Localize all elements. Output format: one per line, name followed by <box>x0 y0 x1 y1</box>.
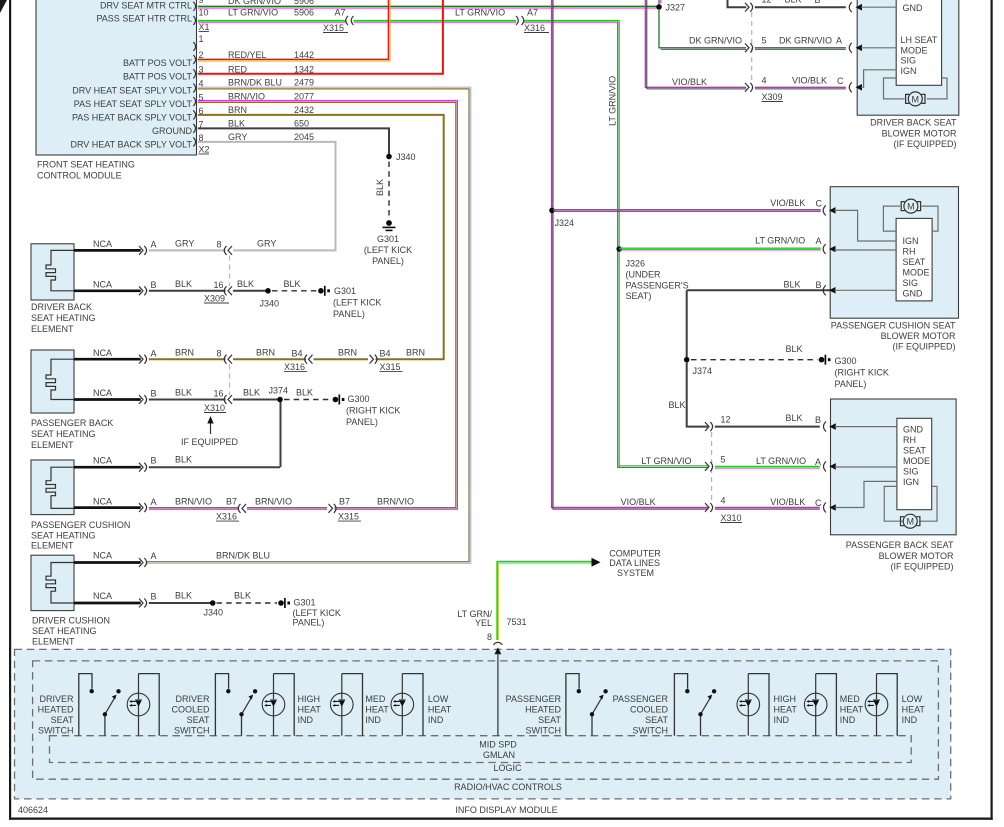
svg-text:J327: J327 <box>666 3 686 13</box>
motor connector M3-A <box>824 461 827 471</box>
svg-text:5906: 5906 <box>294 8 314 18</box>
svg-text:7531: 7531 <box>507 617 527 627</box>
svg-text:NCA: NCA <box>93 388 112 398</box>
svg-text:A: A <box>836 36 842 46</box>
svg-text:X309: X309 <box>762 92 783 102</box>
svg-text:A7: A7 <box>527 8 538 18</box>
page border left <box>9 0 11 820</box>
svg-text:BATT POS VOLT: BATT POS VOLT <box>123 58 193 68</box>
svg-text:VIO/BLK: VIO/BLK <box>770 198 805 208</box>
logic box <box>50 736 912 763</box>
switch S2 driver cooled <box>215 674 257 736</box>
svg-text:ELEMENT: ELEMENT <box>32 637 75 647</box>
svg-text:2479: 2479 <box>294 78 314 88</box>
radio/hvac controls box <box>33 661 939 779</box>
svg-text:SIG: SIG <box>903 467 919 477</box>
svg-text:PASS SEAT HTR CTRL: PASS SEAT HTR CTRL <box>96 14 192 24</box>
page border bottom <box>9 818 993 820</box>
wire pin7 BLK <box>198 128 389 154</box>
connector E3-A <box>139 503 147 512</box>
LED indicator D4 <box>391 674 423 736</box>
svg-text:FRONT SEAT HEATING: FRONT SEAT HEATING <box>37 160 135 170</box>
connector E4-A <box>139 558 147 567</box>
svg-text:BLK: BLK <box>175 455 192 465</box>
svg-text:(RIGHT KICK: (RIGHT KICK <box>835 368 889 378</box>
svg-text:LH SEAT: LH SEAT <box>901 35 938 45</box>
connector E3-B <box>139 463 147 472</box>
node J340 (element4 B) <box>210 600 216 606</box>
svg-text:GND: GND <box>903 289 924 299</box>
heating element E4 DRIVER CUSHION box <box>31 555 74 610</box>
connector E2-B <box>139 395 147 404</box>
svg-text:B7: B7 <box>226 497 237 507</box>
svg-text:BLK: BLK <box>783 280 800 290</box>
svg-text:PASSENGER CUSHION SEAT: PASSENGER CUSHION SEAT <box>831 320 956 330</box>
svg-text:SEAT HEATING: SEAT HEATING <box>31 531 96 541</box>
svg-text:PASSENGER BACK SEAT: PASSENGER BACK SEAT <box>846 540 954 550</box>
svg-text:DK GRN/VIO: DK GRN/VIO <box>779 36 832 46</box>
svg-text:BRN: BRN <box>175 348 194 358</box>
connector X310 pin8 <box>224 355 232 364</box>
svg-text:406624: 406624 <box>18 805 48 815</box>
row C pin4 VIO/BLK <box>745 83 753 92</box>
svg-text:PAS HEAT BACK SPLY VOLT: PAS HEAT BACK SPLY VOLT <box>72 113 193 123</box>
svg-text:C: C <box>815 498 822 508</box>
node J374 (right) <box>684 357 690 363</box>
row C pin4 VIO/BLK <box>705 503 713 512</box>
svg-text:RH: RH <box>903 435 916 445</box>
high heat ind label (right) <box>774 694 798 725</box>
svg-text:BLK: BLK <box>296 388 313 398</box>
wire BLK row B stub from top <box>728 0 747 7</box>
svg-text:ELEMENT: ELEMENT <box>31 440 74 450</box>
wire E4 pigtail A (top) <box>74 561 141 564</box>
wire VIO/BLK vertical (off-page) to X309 row C <box>645 0 746 89</box>
svg-text:BLK: BLK <box>228 119 245 129</box>
svg-text:BLK: BLK <box>786 413 803 423</box>
node J374 (element2 B) <box>277 397 283 403</box>
connector E4-B <box>139 599 147 608</box>
med heat ind label (right) <box>840 694 864 725</box>
svg-text:X315: X315 <box>380 362 401 372</box>
wire pin10 LT GRN/VIO to X315 <box>198 21 347 23</box>
svg-text:MODE: MODE <box>903 268 930 278</box>
svg-text:BATT POS VOLT: BATT POS VOLT <box>123 72 193 82</box>
wire pin3 RED <box>198 0 443 74</box>
svg-text:BLK: BLK <box>786 344 803 354</box>
svg-text:BRN/DK BLU: BRN/DK BLU <box>216 551 270 561</box>
LED indicator D5 <box>737 674 769 736</box>
svg-text:(IF EQUIPPED): (IF EQUIPPED) <box>893 139 956 149</box>
svg-text:SEAT): SEAT) <box>626 291 652 301</box>
svg-text:PANEL): PANEL) <box>346 417 378 427</box>
wire pin6 BRN <box>198 115 444 359</box>
wire DK GRN/VIO from J327 down to blower row A <box>659 9 746 49</box>
svg-text:MODE: MODE <box>901 45 928 55</box>
heater coil symbol E4 <box>46 563 74 604</box>
svg-text:X316: X316 <box>524 23 545 33</box>
M3 inner block <box>897 418 932 509</box>
svg-text:J324: J324 <box>555 218 575 228</box>
svg-text:4: 4 <box>721 496 726 506</box>
wire E3 pigtail A (bottom) <box>74 506 141 509</box>
svg-text:HEAT: HEAT <box>428 705 452 715</box>
row B pin12 BLK <box>705 422 713 431</box>
svg-text:PASSENGER BACK: PASSENGER BACK <box>31 418 113 428</box>
wire E1 pigtail B <box>74 289 141 292</box>
LED indicator D6 <box>804 674 836 736</box>
svg-text:4: 4 <box>762 76 767 86</box>
svg-text:J374: J374 <box>269 386 289 396</box>
svg-text:BRN: BRN <box>338 348 357 358</box>
motor connector M3-C <box>824 503 827 513</box>
svg-text:SIG: SIG <box>901 56 917 66</box>
wire BLK from J374 down to passenger back blower row B <box>687 362 708 426</box>
node J327 <box>656 4 662 10</box>
connector X310 pin16 <box>224 395 232 404</box>
blower M1 box <box>857 0 959 115</box>
svg-text:1: 1 <box>199 34 204 44</box>
svg-text:8: 8 <box>487 632 492 642</box>
connector X316 (element2 A) <box>305 355 313 364</box>
svg-text:LT GRN/VIO: LT GRN/VIO <box>755 236 805 246</box>
GMLAN wire inside module <box>495 647 502 654</box>
motor connector M2-C <box>823 205 826 215</box>
svg-text:BLK: BLK <box>175 279 192 289</box>
svg-text:SEAT: SEAT <box>538 715 561 725</box>
svg-text:(LEFT KICK: (LEFT KICK <box>364 245 412 255</box>
wire DK GRN/VIO vertical stub above J327 <box>658 0 660 7</box>
connector X315 (element2 A) <box>370 355 378 364</box>
motor M2 armature loop <box>883 206 900 231</box>
switch S4 passenger cooled <box>674 674 716 736</box>
wire LT GRN/VIO between X315 and X316 <box>354 21 517 23</box>
wire pin5 BRN/VIO <box>198 101 458 510</box>
svg-text:(RIGHT KICK: (RIGHT KICK <box>346 406 400 416</box>
svg-text:GND: GND <box>903 425 924 435</box>
svg-text:M: M <box>906 517 914 527</box>
ground splice G301 (element4) <box>278 600 284 606</box>
svg-text:12: 12 <box>721 415 731 425</box>
svg-text:PANEL): PANEL) <box>372 256 404 266</box>
svg-text:PAS HEAT SEAT SPLY VOLT: PAS HEAT SEAT SPLY VOLT <box>74 99 193 109</box>
svg-text:BRN/VIO: BRN/VIO <box>377 497 414 507</box>
row B pin12 BLK <box>745 3 753 12</box>
svg-text:2077: 2077 <box>294 92 314 102</box>
svg-text:SEAT HEATING: SEAT HEATING <box>31 429 96 439</box>
svg-text:SYSTEM: SYSTEM <box>617 568 654 578</box>
heater coil symbol E2 <box>46 359 74 399</box>
svg-text:ELEMENT: ELEMENT <box>31 541 74 551</box>
connector X309 dashed link (blower) <box>751 12 753 83</box>
svg-text:BLK: BLK <box>785 0 802 5</box>
node J340 (module side) <box>386 154 392 160</box>
svg-text:INFO DISPLAY MODULE: INFO DISPLAY MODULE <box>455 805 557 815</box>
module pin name labels <box>70 1 192 150</box>
motor connector M1-B <box>849 2 852 12</box>
svg-text:16: 16 <box>214 280 224 290</box>
motor connector M1-C <box>849 82 852 92</box>
node J340 (element1 B) <box>265 288 271 294</box>
wire pin4 BRN/DK BLU <box>146 87 471 563</box>
connector X309 dashed link <box>229 256 231 287</box>
svg-text:BLOWER MOTOR: BLOWER MOTOR <box>879 551 954 561</box>
connector X315 on LT GRN/VIO wire <box>346 16 354 25</box>
motor connector M2-A <box>823 244 826 254</box>
connector X316 on LT GRN/VIO wire <box>516 16 524 25</box>
svg-text:B4: B4 <box>380 349 391 359</box>
svg-text:NCA: NCA <box>93 591 112 601</box>
svg-text:SWITCH: SWITCH <box>174 726 210 736</box>
wire VIO/BLK from J324 to passenger cushion blower row C <box>553 210 821 212</box>
svg-text:GRY: GRY <box>257 239 276 249</box>
med heat ind label <box>365 694 389 725</box>
svg-text:M: M <box>907 202 915 212</box>
svg-text:GMLAN: GMLAN <box>483 750 515 760</box>
svg-text:2045: 2045 <box>294 132 314 142</box>
svg-text:2432: 2432 <box>294 105 314 115</box>
connector X310 dashed link <box>229 365 231 396</box>
svg-text:SEAT: SEAT <box>903 446 926 456</box>
ground G301 (left kick panel) <box>386 220 392 226</box>
LED indicator D1 <box>127 674 159 736</box>
heating element E3 PASSENGER CUSHION box <box>31 460 74 515</box>
svg-text:SEAT: SEAT <box>187 715 210 725</box>
svg-text:(UNDER: (UNDER <box>626 270 661 280</box>
svg-text:ELEMENT: ELEMENT <box>31 324 74 334</box>
low heat ind label <box>428 694 452 725</box>
svg-text:(IF EQUIPPED): (IF EQUIPPED) <box>890 562 953 572</box>
wire E2 pigtail B <box>74 398 141 401</box>
svg-text:G301: G301 <box>377 234 399 244</box>
svg-text:X316: X316 <box>284 362 305 372</box>
wire LT GRN/YEL <box>497 562 593 640</box>
svg-text:PASSENGER: PASSENGER <box>613 694 669 704</box>
svg-text:PANEL): PANEL) <box>835 379 867 389</box>
svg-text:BLOWER MOTOR: BLOWER MOTOR <box>881 331 956 341</box>
svg-text:8: 8 <box>217 240 222 250</box>
svg-text:BLK: BLK <box>375 179 385 196</box>
svg-text:BRN: BRN <box>256 348 275 358</box>
svg-text:B7: B7 <box>339 497 350 507</box>
svg-text:DK GRN/VIO: DK GRN/VIO <box>228 0 281 6</box>
svg-text:NCA: NCA <box>93 239 112 249</box>
page corner mark <box>0 0 7 13</box>
svg-text:DK GRN/VIO: DK GRN/VIO <box>689 36 742 46</box>
svg-text:BRN/VIO: BRN/VIO <box>228 92 265 102</box>
svg-text:X315: X315 <box>323 23 344 33</box>
svg-text:J326: J326 <box>626 259 646 269</box>
svg-text:LT GRN/VIO: LT GRN/VIO <box>608 76 618 126</box>
svg-text:B: B <box>815 0 821 5</box>
motor M2 symbol <box>904 199 918 213</box>
blower M2 box <box>830 187 958 319</box>
module pin arcs <box>193 2 195 147</box>
node J326 <box>616 246 622 252</box>
blower M3 box <box>831 399 957 535</box>
svg-text:BLK: BLK <box>234 591 251 601</box>
svg-text:CONTROL MODULE: CONTROL MODULE <box>37 171 122 181</box>
svg-text:G301: G301 <box>334 286 356 296</box>
svg-text:YEL: YEL <box>475 618 492 628</box>
motor connector M3-B <box>824 422 827 432</box>
ground splice G301 (element1) <box>318 288 324 294</box>
connector X315 (element3 A) <box>329 504 337 513</box>
switch S3 passenger heated <box>566 674 608 736</box>
svg-text:BLK: BLK <box>243 388 260 398</box>
svg-text:BLOWER MOTOR: BLOWER MOTOR <box>882 128 957 138</box>
svg-text:NCA: NCA <box>93 497 112 507</box>
motor M3 armature loop <box>884 486 903 521</box>
svg-text:X310: X310 <box>721 513 742 523</box>
module entry connector arc <box>493 642 502 644</box>
svg-text:C: C <box>837 76 844 86</box>
svg-text:DRIVER BACK: DRIVER BACK <box>31 302 92 312</box>
heating element E2 PASSENGER BACK box <box>31 350 74 413</box>
module label <box>37 160 135 181</box>
svg-text:IGN: IGN <box>901 66 917 76</box>
connector X309 pin8 <box>224 246 232 255</box>
svg-text:BLK: BLK <box>237 279 254 289</box>
svg-text:(IF EQUIPPED): (IF EQUIPPED) <box>892 342 955 352</box>
wire pin2 RED/YEL <box>198 0 390 61</box>
svg-text:DRV SEAT MTR CTRL: DRV SEAT MTR CTRL <box>100 1 192 11</box>
svg-text:HEAT: HEAT <box>840 705 864 715</box>
svg-text:X310: X310 <box>204 403 225 413</box>
wire LT GRN/VIO from X316 right then down to J326 and on to row A of passenger back blower <box>524 21 708 468</box>
svg-text:8: 8 <box>217 349 222 359</box>
svg-text:VIO/BLK: VIO/BLK <box>770 497 805 507</box>
svg-text:LT GRN/VIO: LT GRN/VIO <box>641 456 691 466</box>
svg-text:GROUND: GROUND <box>152 126 192 136</box>
svg-text:GRY: GRY <box>175 239 194 249</box>
svg-text:GND: GND <box>903 3 924 13</box>
switch S1 driver heated <box>79 674 121 736</box>
svg-text:LT GRN/VIO: LT GRN/VIO <box>228 8 278 18</box>
svg-text:RED/YEL: RED/YEL <box>228 50 267 60</box>
svg-text:IGN: IGN <box>903 477 919 487</box>
svg-text:IND: IND <box>902 715 918 725</box>
svg-text:HEAT: HEAT <box>774 705 798 715</box>
svg-text:SEAT: SEAT <box>903 257 926 267</box>
svg-text:X2: X2 <box>199 145 210 155</box>
svg-text:IGN: IGN <box>903 236 919 246</box>
svg-text:VIO/BLK: VIO/BLK <box>792 76 827 86</box>
motor connector M2-B <box>823 285 826 295</box>
svg-text:DRIVER: DRIVER <box>39 694 74 704</box>
svg-text:BRN: BRN <box>406 348 425 358</box>
svg-text:B4: B4 <box>292 349 303 359</box>
svg-text:9: 9 <box>199 0 204 5</box>
svg-text:J340: J340 <box>396 152 416 162</box>
svg-text:B: B <box>151 280 157 290</box>
svg-text:IND: IND <box>298 715 314 725</box>
low heat ind label (right) <box>902 694 926 725</box>
wire BLK dashed to G301 <box>388 162 390 219</box>
svg-text:DATA LINES: DATA LINES <box>609 558 660 568</box>
LED indicator D7 <box>865 674 897 736</box>
page border right <box>991 0 993 820</box>
svg-text:NCA: NCA <box>93 455 112 465</box>
svg-text:X309: X309 <box>204 294 225 304</box>
svg-text:A: A <box>816 236 822 246</box>
row A pin5 LT GRN/VIO <box>705 462 713 472</box>
svg-text:PASSENGER: PASSENGER <box>506 694 562 704</box>
svg-text:BLK: BLK <box>284 279 301 289</box>
svg-text:HEAT: HEAT <box>365 705 389 715</box>
svg-text:BLK: BLK <box>175 388 192 398</box>
svg-text:VIO/BLK: VIO/BLK <box>621 497 656 507</box>
arrow to computer data lines <box>592 558 601 567</box>
svg-text:G300: G300 <box>835 356 857 366</box>
svg-text:IND: IND <box>365 715 381 725</box>
wire E2 pigtail A <box>74 358 141 361</box>
ground splice G300 (element2) <box>333 397 339 403</box>
svg-text:DRV HEAT BACK SPLY VOLT: DRV HEAT BACK SPLY VOLT <box>70 140 192 150</box>
svg-text:PANEL): PANEL) <box>293 618 325 628</box>
svg-text:MID SPD: MID SPD <box>479 740 517 750</box>
svg-text:J340: J340 <box>204 608 224 618</box>
wire pin9 DK GRN/VIO horizontal <box>198 6 661 8</box>
wire E3 pigtail B (top) <box>74 466 141 469</box>
svg-text:PASSENGER CUSHION: PASSENGER CUSHION <box>31 520 130 530</box>
svg-text:IF EQUIPPED: IF EQUIPPED <box>181 437 239 447</box>
svg-text:VIO/BLK: VIO/BLK <box>672 77 707 87</box>
wire BLK dashed to G300 splice <box>284 399 332 401</box>
svg-text:SEAT HEATING: SEAT HEATING <box>32 626 97 636</box>
svg-text:J340: J340 <box>260 299 280 309</box>
svg-text:SEAT: SEAT <box>645 715 668 725</box>
connector E2-A <box>139 355 147 364</box>
pin wire color/value labels <box>228 0 346 142</box>
motor M3 symbol <box>903 514 917 528</box>
svg-text:NCA: NCA <box>93 348 112 358</box>
motor connector M1-A <box>849 43 852 53</box>
svg-text:B: B <box>151 592 157 602</box>
svg-text:MED: MED <box>365 694 386 704</box>
svg-text:IND: IND <box>840 715 856 725</box>
svg-text:IND: IND <box>774 715 790 725</box>
svg-text:HEATED: HEATED <box>525 705 561 715</box>
svg-text:650: 650 <box>294 119 309 129</box>
svg-text:DRIVER CUSHION: DRIVER CUSHION <box>32 616 110 626</box>
high heat ind label <box>298 694 322 725</box>
svg-text:X315: X315 <box>338 512 359 522</box>
connector E1-B <box>139 286 147 295</box>
svg-text:LOW: LOW <box>428 694 449 704</box>
svg-text:SIG: SIG <box>903 278 919 288</box>
wire E4 pigtail B (bottom) <box>74 602 141 605</box>
wire LT GRN/VIO from J326 to passenger cushion blower row A <box>619 248 821 250</box>
svg-text:COOLED: COOLED <box>171 705 210 715</box>
connector X316 (element3 A) <box>238 504 246 513</box>
svg-text:B: B <box>815 415 821 425</box>
svg-text:A7: A7 <box>335 8 346 18</box>
svg-text:IND: IND <box>428 715 444 725</box>
wire E1 pigtail A <box>74 249 141 252</box>
svg-text:A: A <box>151 497 157 507</box>
svg-text:LT GRN/VIO: LT GRN/VIO <box>455 8 505 18</box>
wire J374 down to element3 B <box>280 402 282 467</box>
svg-text:HIGH: HIGH <box>298 694 321 704</box>
svg-text:X1: X1 <box>199 22 210 32</box>
svg-text:5: 5 <box>721 455 726 465</box>
svg-text:DRV HEAT SEAT SPLY VOLT: DRV HEAT SEAT SPLY VOLT <box>72 86 192 96</box>
svg-text:(LEFT KICK: (LEFT KICK <box>293 608 341 618</box>
svg-text:PANEL): PANEL) <box>333 309 365 319</box>
svg-text:NCA: NCA <box>93 280 112 290</box>
row A pin5 DK GRN/VIO <box>745 43 753 52</box>
